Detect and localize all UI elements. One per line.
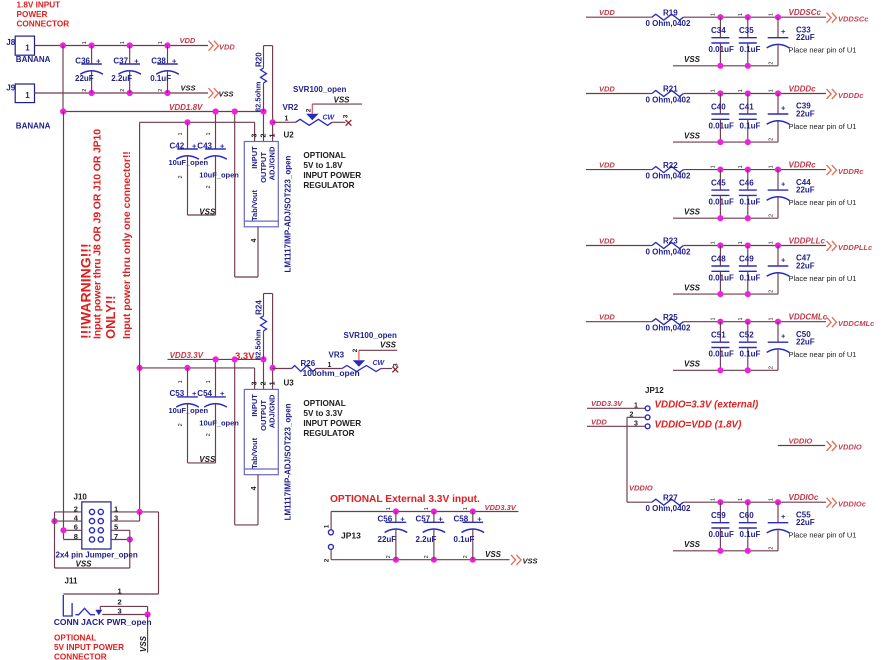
U3 pin 4 stub bbox=[257, 475, 259, 525]
svg-text:C41: C41 bbox=[739, 103, 754, 112]
svg-text:10uF_open: 10uF_open bbox=[199, 171, 239, 180]
svg-text:VR3: VR3 bbox=[329, 350, 345, 359]
svg-text:22uF: 22uF bbox=[796, 518, 815, 527]
node junction C44 top bbox=[775, 167, 781, 173]
wire C48 bottom bbox=[719, 271, 721, 294]
capacitor C46 symbol bbox=[739, 189, 757, 191]
wire VR3 pin 3 bbox=[381, 368, 392, 370]
svg-text:82.5ohm: 82.5ohm bbox=[254, 329, 263, 360]
node junction J10 pin7 bbox=[127, 536, 133, 542]
svg-text:VDD: VDD bbox=[599, 313, 615, 322]
wire J11 pin 1 bbox=[63, 593, 158, 595]
wire VDD to R21 bbox=[586, 93, 652, 95]
svg-text:1: 1 bbox=[206, 380, 212, 383]
svg-text:VDDDc: VDDDc bbox=[789, 85, 817, 94]
svg-text:1: 1 bbox=[738, 498, 744, 501]
svg-text:ONLY!!: ONLY!! bbox=[103, 295, 118, 339]
svg-text:1: 1 bbox=[158, 41, 164, 44]
node junction ADJ/VR wire bbox=[270, 365, 276, 371]
capacitor C35 symbol bbox=[739, 37, 757, 39]
svg-text:22uF: 22uF bbox=[796, 33, 815, 42]
wire C42 top bbox=[187, 122, 189, 149]
wire C53 bottom bbox=[187, 403, 189, 463]
node junction U3 input / J10 vertical bbox=[137, 365, 143, 371]
svg-text:OUTPUT: OUTPUT bbox=[259, 400, 268, 431]
node junction C60 bottom bbox=[745, 548, 751, 554]
wire C56 bottom bbox=[395, 529, 397, 560]
capacitor C47 symbol bbox=[768, 265, 789, 267]
svg-text:C37: C37 bbox=[113, 56, 128, 65]
svg-text:0.01uF: 0.01uF bbox=[709, 45, 734, 54]
wire C50 top bbox=[777, 322, 779, 343]
svg-text:J8: J8 bbox=[6, 38, 15, 47]
node junction C48 bottom bbox=[717, 291, 723, 297]
svg-text:R27: R27 bbox=[663, 493, 678, 502]
svg-text:Place near pin of U1: Place near pin of U1 bbox=[789, 122, 857, 131]
regulator U2 box bbox=[244, 142, 278, 227]
svg-text:1: 1 bbox=[711, 317, 717, 320]
svg-text:0.1uF: 0.1uF bbox=[740, 530, 761, 539]
svg-text:0 Ohm,0402: 0 Ohm,0402 bbox=[646, 248, 691, 257]
capacitor C55 symbol bbox=[768, 522, 789, 524]
svg-text:C59: C59 bbox=[711, 511, 726, 520]
capacitor C48 symbol bbox=[711, 265, 729, 267]
node junction ADJ/VR wire bbox=[270, 119, 276, 125]
svg-text:1: 1 bbox=[206, 132, 212, 135]
svg-text:VDD: VDD bbox=[180, 36, 196, 45]
svg-text:OPTIONAL: OPTIONAL bbox=[303, 151, 345, 160]
svg-text:VDDIO=3.3V (external): VDDIO=3.3V (external) bbox=[655, 400, 759, 411]
wire C55 top bbox=[777, 502, 779, 523]
wire long vertical VDD1.8V to J10 pin 6/8 bbox=[63, 112, 65, 540]
wire C53 top bbox=[187, 368, 189, 397]
wire C54 bottom bbox=[215, 403, 217, 463]
node junction C33 top bbox=[775, 14, 781, 20]
resistor R20 vertical bbox=[263, 46, 265, 68]
capacitor C41 symbol bbox=[739, 113, 757, 115]
svg-text:VDD3.3V: VDD3.3V bbox=[170, 351, 204, 360]
capacitor C49 symbol bbox=[739, 265, 757, 267]
wire C46 top bbox=[747, 170, 749, 191]
svg-text:0.1uF: 0.1uF bbox=[150, 74, 171, 83]
U2 pin 4 stub bbox=[257, 227, 259, 277]
svg-text:22uF: 22uF bbox=[75, 74, 94, 83]
wire R21 to flag bbox=[683, 93, 826, 95]
off-page connector VDDRc bbox=[827, 165, 837, 175]
svg-text:VDDRc: VDDRc bbox=[838, 167, 864, 176]
svg-text:0 Ohm,0402: 0 Ohm,0402 bbox=[646, 96, 691, 105]
svg-text:2: 2 bbox=[324, 558, 331, 562]
wire C39 top bbox=[777, 94, 779, 115]
svg-text:REGULATOR: REGULATOR bbox=[303, 429, 354, 438]
node junction C47 top bbox=[775, 242, 781, 248]
connector JP12 pin 3 circle bbox=[645, 424, 650, 429]
svg-text:0.1uF: 0.1uF bbox=[740, 274, 761, 283]
capacitor C51 symbol bbox=[711, 341, 729, 343]
wire C49 bottom bbox=[747, 271, 749, 294]
wire C33 top bbox=[777, 17, 779, 38]
svg-text:VSS: VSS bbox=[76, 560, 93, 569]
wire J11 pin 3 bbox=[102, 614, 147, 616]
capacitor C39 symbol bbox=[768, 113, 789, 115]
wire 5V input vertical J10 pin1 to regulators bbox=[139, 122, 141, 512]
node junction C37 bottom bbox=[127, 90, 133, 96]
svg-text:2: 2 bbox=[769, 214, 775, 217]
svg-text:82.5ohm: 82.5ohm bbox=[254, 81, 263, 112]
resistor R22 zigzag bbox=[652, 167, 684, 173]
off-page connector VDDCMLc bbox=[827, 317, 837, 327]
svg-text:VSS: VSS bbox=[684, 540, 701, 549]
wire VSS bracket under C53 C54 bbox=[188, 462, 216, 464]
svg-text:C60: C60 bbox=[739, 511, 754, 520]
svg-text:VSS: VSS bbox=[684, 55, 701, 64]
svg-text:0 Ohm,0402: 0 Ohm,0402 bbox=[646, 19, 691, 28]
wire C41 bottom bbox=[747, 119, 749, 142]
svg-text:INPUT POWER: INPUT POWER bbox=[303, 171, 361, 180]
svg-text:3: 3 bbox=[634, 421, 638, 428]
node junction C59 bottom bbox=[717, 548, 723, 554]
capacitor C45 symbol bbox=[711, 189, 729, 191]
svg-text:+: + bbox=[172, 56, 177, 65]
capacitor C60 symbol bbox=[739, 522, 757, 524]
svg-text:REGULATOR: REGULATOR bbox=[303, 181, 354, 190]
wire U2 pin 3 stub bbox=[254, 122, 256, 141]
wire C38 top bbox=[167, 46, 169, 65]
node junction C51 bottom bbox=[717, 367, 723, 373]
wire R27 to flag bbox=[683, 501, 826, 503]
wire J10 pin3 vertical joint bbox=[139, 512, 141, 521]
node junction C34 top bbox=[717, 14, 723, 20]
svg-text:2: 2 bbox=[260, 134, 267, 138]
node junction C48 top bbox=[717, 242, 723, 248]
svg-text:2: 2 bbox=[769, 290, 775, 293]
capacitor C58 symbol bbox=[463, 521, 484, 523]
svg-text:R20: R20 bbox=[255, 52, 264, 67]
node junction C52 bottom bbox=[745, 367, 751, 373]
svg-text:ADJ/GND: ADJ/GND bbox=[268, 146, 277, 180]
wire U3 pin 2 stub to rail bbox=[263, 359, 265, 389]
wire VDD to R23 bbox=[586, 245, 652, 247]
svg-text:3: 3 bbox=[252, 381, 259, 385]
svg-text:VDDPLLc: VDDPLLc bbox=[838, 243, 873, 252]
connector J9 BANANA box bbox=[15, 84, 34, 103]
wire VDD to R19 bbox=[586, 16, 652, 18]
wire C43 top bbox=[215, 112, 217, 150]
svg-text:VDDSCc: VDDSCc bbox=[838, 15, 869, 24]
capacitor C38 symbol bbox=[157, 63, 178, 65]
wire JP12 pin 2 left bbox=[627, 416, 645, 418]
svg-text:Input power thru only one conn: Input power thru only one connector!! bbox=[121, 151, 133, 339]
svg-text:0 Ohm,0402: 0 Ohm,0402 bbox=[646, 504, 691, 513]
wire VDD to R27 bbox=[627, 501, 652, 503]
node junction C43 top bbox=[213, 108, 219, 114]
svg-text:4: 4 bbox=[251, 239, 258, 243]
wire C40 bottom bbox=[719, 119, 721, 142]
wire J10 pin 6 bbox=[64, 529, 82, 531]
svg-text:C52: C52 bbox=[739, 331, 754, 340]
node junction C45 top bbox=[717, 167, 723, 173]
wire C40 top bbox=[719, 94, 721, 115]
node junction C45 bottom bbox=[717, 215, 723, 221]
svg-text:VSS: VSS bbox=[380, 341, 397, 350]
connector J11 sleeve contact bbox=[63, 595, 72, 616]
wire VR2 pin 2 up bbox=[311, 104, 313, 114]
svg-text:R19: R19 bbox=[663, 8, 678, 17]
capacitor C37 symbol bbox=[119, 63, 140, 65]
svg-text:C34: C34 bbox=[711, 26, 726, 35]
svg-text:1: 1 bbox=[634, 403, 638, 410]
node junction C50 top bbox=[775, 319, 781, 325]
node junction C41 bottom bbox=[745, 139, 751, 145]
svg-text:2: 2 bbox=[82, 89, 88, 92]
svg-text:C54: C54 bbox=[197, 389, 212, 398]
svg-text:1: 1 bbox=[711, 241, 717, 244]
svg-text:VSS: VSS bbox=[219, 90, 234, 99]
svg-text:1: 1 bbox=[738, 165, 744, 168]
connector JP13 pin 1 circle bbox=[328, 530, 333, 535]
svg-text:+: + bbox=[781, 332, 786, 341]
svg-text:C35: C35 bbox=[739, 26, 754, 35]
node junction C55 top bbox=[775, 499, 781, 505]
svg-text:J9: J9 bbox=[6, 84, 15, 93]
svg-text:R21: R21 bbox=[663, 85, 678, 94]
wire C34 bottom bbox=[719, 43, 721, 66]
svg-text:22uF: 22uF bbox=[796, 338, 815, 347]
svg-text:CONNECTOR: CONNECTOR bbox=[54, 652, 107, 660]
svg-text:Place near pin of U1: Place near pin of U1 bbox=[789, 198, 857, 207]
wire J11 pin2 to pin3 corner bbox=[147, 606, 149, 614]
node junction C58 top bbox=[470, 508, 476, 514]
capacitor C43 symbol bbox=[205, 148, 226, 150]
wire VSS bottom bbox=[673, 550, 778, 552]
svg-text:SVR100_open: SVR100_open bbox=[344, 331, 397, 340]
svg-text:2: 2 bbox=[158, 89, 164, 92]
svg-text:VDDDc: VDDDc bbox=[838, 91, 864, 100]
node junction C51 top bbox=[717, 319, 723, 325]
wire J10 left VSS vertical bbox=[54, 512, 56, 568]
connector JP12 pin 1 circle bbox=[645, 406, 650, 411]
off-page connector VDDSCc bbox=[827, 13, 837, 23]
svg-text:+: + bbox=[781, 256, 786, 265]
svg-text:1: 1 bbox=[324, 524, 331, 528]
svg-text:OPTIONAL External 3.3V input.: OPTIONAL External 3.3V input. bbox=[330, 494, 480, 505]
svg-text:1: 1 bbox=[768, 317, 774, 320]
svg-text:1: 1 bbox=[738, 13, 744, 16]
capacitor C36 symbol bbox=[81, 63, 102, 65]
svg-text:VDDPLLc: VDDPLLc bbox=[789, 237, 826, 246]
svg-text:CONN JACK PWR_open: CONN JACK PWR_open bbox=[54, 617, 152, 627]
svg-text:1: 1 bbox=[738, 317, 744, 320]
svg-text:Tab/Vout: Tab/Vout bbox=[250, 190, 259, 221]
wire VDD to R25 bbox=[586, 321, 652, 323]
svg-text:JP13: JP13 bbox=[341, 531, 361, 541]
wire ADJ vertical to U3 pin 1 bbox=[272, 294, 274, 390]
connector J11 center pin triangle bbox=[95, 610, 102, 616]
svg-text:0 Ohm,0402: 0 Ohm,0402 bbox=[646, 324, 691, 333]
wire J10 pin 3 bbox=[111, 520, 140, 522]
svg-text:VDDRc: VDDRc bbox=[789, 161, 817, 170]
resistor R21 zigzag bbox=[652, 91, 684, 97]
svg-text:2: 2 bbox=[352, 348, 359, 352]
wire JP13 top VDD3.3V bbox=[331, 511, 518, 513]
svg-text:+: + bbox=[438, 515, 443, 524]
wire C55 bottom bbox=[777, 530, 779, 551]
svg-text:C49: C49 bbox=[739, 255, 754, 264]
node junction C59 top bbox=[717, 499, 723, 505]
svg-text:3: 3 bbox=[252, 134, 259, 138]
node junction C57 bottom bbox=[431, 557, 437, 563]
connector JP12 pin 2 circle bbox=[645, 415, 650, 420]
wire VR3 pin 2 VSS stub bbox=[359, 349, 397, 351]
resistor R23 zigzag bbox=[652, 243, 684, 249]
wire J8 to VDD flag bbox=[35, 45, 209, 47]
node junction C46 top bbox=[745, 167, 751, 173]
svg-text:SVR100_open: SVR100_open bbox=[293, 85, 346, 94]
svg-text:VDDIO: VDDIO bbox=[838, 443, 862, 452]
off-page connector VDDIOc bbox=[827, 498, 837, 508]
svg-text:0.01uF: 0.01uF bbox=[709, 198, 734, 207]
wire C59 top bbox=[719, 502, 721, 523]
svg-text:VDDIO: VDDIO bbox=[629, 483, 653, 492]
wire C47 bottom bbox=[777, 274, 779, 295]
wire pin 4 loop vertical to rail bbox=[234, 112, 236, 278]
svg-text:1: 1 bbox=[463, 507, 469, 510]
svg-text:4: 4 bbox=[251, 486, 258, 490]
wire VDD1.8V rail bbox=[63, 111, 264, 113]
wire JP13 left vertical top bbox=[330, 512, 332, 530]
node junction C38 top bbox=[164, 42, 170, 48]
wire C52 top bbox=[747, 322, 749, 343]
wire J10 VSS bracket bottom bbox=[55, 567, 130, 569]
svg-text:1: 1 bbox=[768, 498, 774, 501]
svg-text:0.01uF: 0.01uF bbox=[709, 530, 734, 539]
wire C58 bottom bbox=[472, 529, 474, 560]
svg-text:VSS: VSS bbox=[523, 556, 538, 565]
svg-text:2: 2 bbox=[118, 598, 122, 607]
node junction C41 top bbox=[745, 90, 751, 96]
wire C45 top bbox=[719, 170, 721, 191]
wire 5V elbow top bbox=[139, 121, 141, 123]
svg-text:J11: J11 bbox=[65, 577, 78, 586]
svg-text:OUTPUT: OUTPUT bbox=[259, 152, 268, 183]
svg-text:+: + bbox=[477, 515, 482, 524]
wire J10 pin 7 bbox=[111, 539, 130, 541]
svg-text:2: 2 bbox=[769, 366, 775, 369]
svg-text:C57: C57 bbox=[416, 515, 431, 524]
potentiometer VR3 zigzag bbox=[342, 366, 381, 372]
svg-text:+: + bbox=[134, 56, 139, 65]
node junction C35 top bbox=[745, 14, 751, 20]
capacitor C56 symbol bbox=[386, 521, 407, 523]
svg-text:5V INPUT POWER: 5V INPUT POWER bbox=[54, 643, 124, 652]
svg-text:C46: C46 bbox=[739, 179, 754, 188]
svg-text:R22: R22 bbox=[663, 161, 678, 170]
svg-text:1: 1 bbox=[768, 241, 774, 244]
wire pin 4 loop vertical to rail bbox=[234, 359, 236, 525]
svg-text:VSS: VSS bbox=[199, 207, 216, 216]
potentiometer VR3 wiper triangle bbox=[353, 360, 365, 366]
resistor R24 vertical bbox=[263, 294, 265, 316]
svg-text:+: + bbox=[96, 56, 101, 65]
node junction C36 top bbox=[89, 42, 95, 48]
svg-text:+: + bbox=[781, 180, 786, 189]
svg-text:1: 1 bbox=[82, 41, 88, 44]
svg-text:C42: C42 bbox=[170, 141, 185, 150]
svg-text:1: 1 bbox=[328, 362, 332, 369]
svg-text:VDD: VDD bbox=[599, 85, 615, 94]
svg-text:+: + bbox=[192, 389, 197, 398]
wire C45 bottom bbox=[719, 195, 721, 218]
svg-text:VDDIOc: VDDIOc bbox=[789, 493, 819, 502]
wire J10 pin 4 bbox=[55, 520, 82, 522]
svg-text:2: 2 bbox=[178, 175, 184, 178]
svg-text:JP12: JP12 bbox=[645, 386, 664, 395]
off-page connector VDDIO bbox=[827, 441, 837, 451]
wire C39 bottom bbox=[777, 122, 779, 143]
svg-text:VSS: VSS bbox=[181, 83, 196, 92]
off-page connector VDDDc bbox=[827, 89, 837, 99]
svg-text:0.1uF: 0.1uF bbox=[740, 198, 761, 207]
node junction C53 top bbox=[184, 365, 190, 371]
wire R26 to VR3 bbox=[316, 368, 342, 370]
svg-text:VSS: VSS bbox=[684, 360, 701, 369]
off-page connector VSS at JP13 bbox=[511, 555, 521, 565]
wire C57 top bbox=[433, 512, 435, 523]
node junction loop/rail bbox=[232, 108, 238, 114]
wire VSS bottom bbox=[673, 141, 778, 143]
svg-text:0.1uF: 0.1uF bbox=[740, 122, 761, 131]
potentiometer VR2 zigzag bbox=[296, 119, 333, 125]
wire J9 to VSS flag bbox=[35, 92, 209, 94]
svg-text:VDD: VDD bbox=[599, 8, 615, 17]
svg-text:INPUT POWER: INPUT POWER bbox=[303, 419, 361, 428]
svg-text:Place near pin of U1: Place near pin of U1 bbox=[789, 350, 857, 359]
svg-text:1: 1 bbox=[118, 586, 122, 595]
wire C47 top bbox=[777, 246, 779, 267]
svg-text:1: 1 bbox=[178, 132, 184, 135]
svg-text:22uF: 22uF bbox=[378, 535, 397, 544]
node junction C39 top bbox=[775, 90, 781, 96]
svg-text:2: 2 bbox=[463, 555, 469, 558]
wire VSS bottom bbox=[673, 369, 778, 371]
svg-text:2: 2 bbox=[769, 62, 775, 65]
svg-text:VDD3.3V: VDD3.3V bbox=[591, 399, 623, 408]
wire pin 4 loop bottom bbox=[235, 524, 258, 526]
node junction J11 pins 2-3 bbox=[145, 611, 151, 617]
svg-text:5V to 3.3V: 5V to 3.3V bbox=[303, 409, 343, 418]
svg-text:+: + bbox=[400, 515, 405, 524]
svg-text:VDDSCc: VDDSCc bbox=[789, 8, 822, 17]
svg-text:2: 2 bbox=[120, 89, 126, 92]
node junction C46 bottom bbox=[745, 215, 751, 221]
svg-text:VSS: VSS bbox=[684, 283, 701, 292]
wire JP13 left vertical bottom bbox=[330, 549, 332, 559]
node junction C34 bottom bbox=[717, 63, 723, 69]
svg-text:1: 1 bbox=[285, 115, 289, 122]
svg-text:1: 1 bbox=[711, 13, 717, 16]
svg-text:1: 1 bbox=[269, 134, 276, 138]
capacitor C33 symbol bbox=[768, 37, 789, 39]
svg-text:2.2uF: 2.2uF bbox=[416, 535, 437, 544]
wire C48 top bbox=[719, 246, 721, 267]
svg-text:VSS: VSS bbox=[199, 455, 216, 464]
wire C46 bottom bbox=[747, 195, 749, 218]
wire C41 top bbox=[747, 94, 749, 115]
connector J10 box bbox=[82, 502, 111, 549]
svg-text:VDDIO: VDDIO bbox=[789, 436, 813, 445]
svg-text:C58: C58 bbox=[454, 515, 469, 524]
capacitor C34 symbol bbox=[711, 37, 729, 39]
